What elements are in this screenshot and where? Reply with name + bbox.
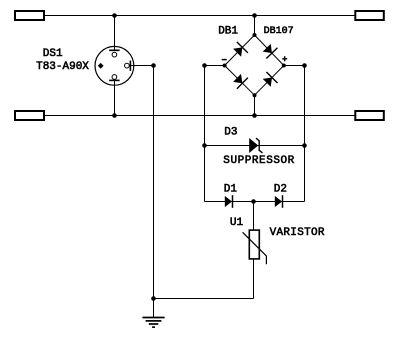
diode bridge DB1 upper-left arm (225, 35, 255, 66)
junction DS1-ground net (151, 63, 156, 68)
suppressor D3 cathode bar with hooks (256, 138, 263, 153)
terminal top-left (15, 11, 44, 20)
gas discharge tube DS1 body (95, 46, 134, 85)
DS1 electrode top pin circle (112, 52, 117, 57)
diode bridge DB1 lower-left arm (225, 66, 255, 96)
wire rail1 top (44, 15, 355, 17)
DS1 electrode bottom bar (109, 79, 119, 81)
junction D3 right (302, 143, 307, 148)
wire rail2 (44, 115, 355, 117)
junction D1-D2 node (251, 199, 256, 204)
wire bridge bottom lead (254, 95, 256, 115)
terminal right-mid (355, 111, 384, 120)
wire DS1 bottom lead (114, 80, 116, 115)
wire D3 row (205, 145, 305, 147)
wire bottom horizontal (154, 298, 254, 300)
svg-text:DB107: DB107 (264, 26, 294, 37)
diode bridge DB1 lower-right triangle (263, 78, 272, 87)
diode D1 triangle (225, 196, 232, 207)
svg-text:VARISTOR: VARISTOR (270, 227, 325, 239)
wire bridge top lead (254, 16, 256, 36)
junction plus node (302, 63, 307, 68)
diode bridge DB1 lower-left cathode bar (237, 78, 248, 89)
DS1 gas indicator dot (98, 63, 104, 69)
diode bridge DB1 lower-right arm (255, 66, 284, 96)
diode bridge DB1 upper-right triangle (263, 44, 272, 53)
diode bridge DB1 upper-left cathode bar (237, 42, 248, 53)
wire DS1 right electrode lead (131, 65, 154, 67)
varistor U1 diagonal stroke (243, 232, 267, 264)
suppressor D3 triangle (249, 138, 258, 153)
DS1 electrode top bar (109, 49, 119, 51)
svg-text:D2: D2 (274, 183, 287, 195)
wire bridge plus stub (284, 65, 305, 67)
wire ground net vertical (153, 66, 155, 318)
terminal left-mid (15, 111, 44, 120)
label plus sign (282, 56, 287, 61)
junction rail1-DS1 (112, 13, 117, 18)
DS1 electrode bottom pin circle (112, 75, 117, 80)
ground symbol (142, 318, 164, 328)
diode bridge DB1 lower-left triangle (233, 74, 242, 83)
junction ground net bottom (151, 296, 156, 301)
wire plus vertical (304, 66, 306, 202)
junction rail2-DS1 (112, 113, 117, 118)
diode bridge DB1 upper-left triangle (233, 47, 242, 56)
wire bridge minus stub (205, 65, 225, 67)
wire varistor bottom lead (253, 259, 255, 299)
junction rail2-bridge (252, 113, 257, 118)
wire varistor top lead (253, 202, 255, 230)
diode D1 cathode bar (232, 195, 234, 208)
wire D1 D2 row (205, 201, 305, 203)
diode D2 cathode bar (282, 195, 284, 208)
svg-text:T83-A90X: T83-A90X (36, 61, 89, 73)
junction bridge left vertex (223, 64, 227, 68)
diode D2 triangle (275, 196, 282, 207)
svg-text:DS1: DS1 (43, 48, 63, 60)
junction minus node (202, 63, 207, 68)
terminal top-right (355, 11, 384, 20)
diode bridge DB1 upper-right arm (255, 35, 284, 66)
junction bridge top vertex (253, 33, 257, 37)
diode bridge DB1 upper-right cathode bar (266, 48, 277, 59)
diode bridge DB1 lower-right cathode bar (266, 72, 277, 83)
svg-text:D1: D1 (224, 183, 238, 195)
wire DS1 top lead (114, 16, 116, 51)
junction bridge bottom vertex (253, 93, 257, 97)
junction rail1-bridge (252, 13, 257, 18)
svg-text:DB1: DB1 (218, 25, 238, 37)
varistor U1 body (249, 230, 259, 259)
DS1 electrode right pin circle (125, 63, 130, 68)
svg-text:SUPPRESSOR: SUPPRESSOR (223, 155, 295, 167)
label minus sign (222, 59, 227, 61)
junction bridge right vertex (282, 64, 286, 68)
svg-text:D3: D3 (224, 127, 237, 139)
DS1 electrode right bar (129, 61, 131, 71)
svg-text:U1: U1 (230, 217, 244, 229)
wire minus vertical (204, 66, 206, 202)
junction D3 left (202, 143, 207, 148)
